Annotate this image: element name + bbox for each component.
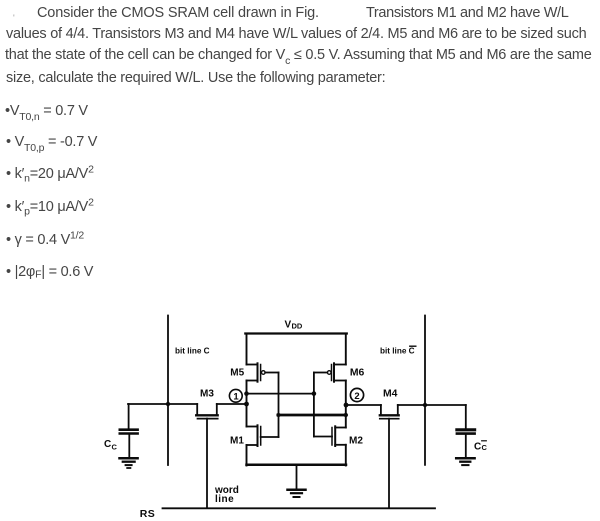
paragraph text — [13, 8, 14, 30]
VDD rail — [245, 332, 346, 334]
svg-text:1: 1 — [233, 392, 239, 403]
svg-text:2: 2 — [354, 391, 359, 402]
wire capacitor CC to M3 — [128, 403, 197, 405]
svg-text:M2: M2 — [349, 435, 363, 446]
junction bit line C-bar — [423, 403, 427, 407]
svg-text:C: C — [112, 443, 118, 452]
svg-text:V: V — [285, 320, 292, 331]
transistor M2 (NMOS) — [314, 426, 346, 446]
CC label — [104, 439, 118, 452]
gate column M5/M1 — [278, 373, 280, 438]
svg-text:M1: M1 — [230, 435, 244, 446]
junction bit line C — [166, 402, 170, 406]
VDD label — [285, 320, 303, 331]
capacitor CC-bar (right) — [457, 405, 475, 457]
wire node1 to M6/M2 gates (cross coupling A) — [247, 393, 314, 395]
ground (CC-bar) — [456, 458, 474, 465]
svg-text:M5: M5 — [230, 368, 244, 379]
ground (CC) — [120, 458, 138, 468]
wire node2 to M5/M1 gates (cross coupling B) — [278, 414, 346, 417]
transistor M3 (NMOS access) — [196, 404, 218, 508]
svg-text:C: C — [474, 441, 481, 452]
capacitor CC (left) — [120, 404, 138, 457]
word line / RS line — [163, 507, 436, 509]
svg-text:C: C — [482, 443, 488, 452]
word line label — [214, 485, 239, 505]
junction node 1 at M3 wire — [244, 402, 249, 407]
gate column M6/M2 — [313, 373, 315, 437]
svg-text:M3: M3 — [200, 388, 214, 399]
junction node 1 at cross-coupling wire — [244, 391, 249, 396]
cell source rail — [247, 464, 347, 467]
svg-text:C: C — [104, 439, 111, 450]
bit line C-bar (right vertical) — [424, 316, 426, 465]
transistor M5 (PMOS) — [247, 363, 279, 381]
junction M6/M2 gate column — [312, 391, 317, 396]
bullet list — [5, 101, 88, 123]
svg-text:RS: RS — [140, 508, 155, 520]
transistor M1 (NMOS) — [247, 425, 279, 446]
svg-text:DD: DD — [292, 321, 303, 330]
svg-text:bit line C: bit line C — [380, 347, 415, 356]
svg-text:M4: M4 — [383, 389, 398, 400]
svg-text:M6: M6 — [350, 368, 365, 379]
svg-text:bit line C: bit line C — [175, 347, 210, 356]
wire M3 to node 1 — [217, 403, 247, 405]
junction M5/M1 gate column — [277, 413, 281, 417]
transistor M4 (NMOS access) — [380, 405, 399, 508]
bit line C (left vertical) — [167, 316, 169, 466]
wire node 2 to M4 — [346, 404, 381, 406]
node 1 circle — [229, 389, 242, 402]
junction node 2 at M4 wire — [344, 403, 349, 408]
node 2 circle — [350, 388, 363, 402]
svg-text:line: line — [215, 494, 234, 505]
wire M4 to capacitor CC-bar — [398, 404, 466, 406]
node 1 branch (vertical wire) — [246, 334, 248, 466]
junction node 2 at M5/M1 gate wire — [344, 413, 348, 417]
bit line C-bar label — [380, 346, 416, 355]
transistor M6 (PMOS) — [314, 363, 346, 381]
node 2 branch (vertical wire) — [345, 334, 347, 466]
ground (cell) — [288, 466, 306, 497]
CC-bar label — [474, 441, 488, 453]
